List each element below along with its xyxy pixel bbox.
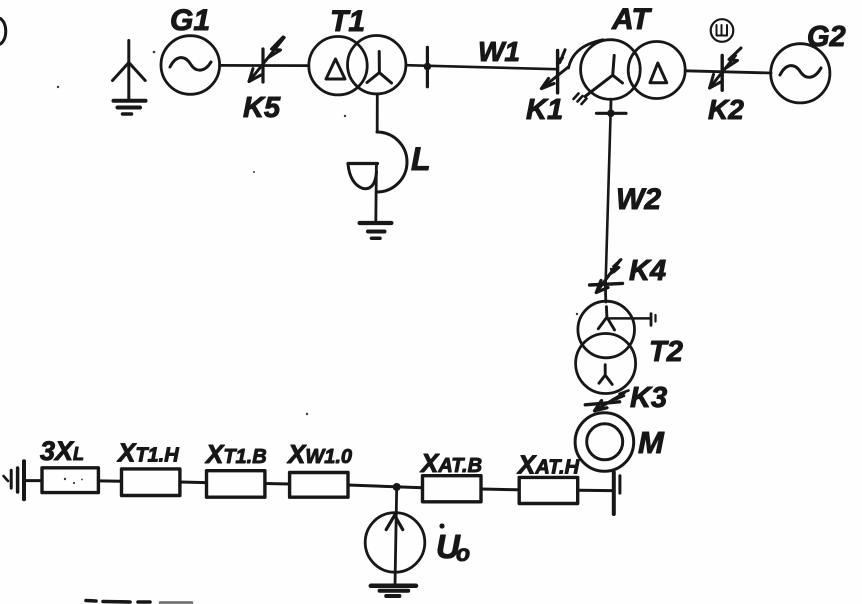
svg-text:W1: W1 bbox=[478, 36, 520, 67]
generator G2 bbox=[771, 21, 846, 103]
svg-text:K5: K5 bbox=[243, 92, 281, 124]
svg-text:G2: G2 bbox=[807, 21, 846, 53]
svg-text:K4: K4 bbox=[629, 255, 666, 287]
short-circuit K5 bbox=[243, 37, 284, 124]
resistor XAT.B bbox=[419, 448, 482, 502]
scan artifact: cut-off caption at bottom bbox=[86, 601, 192, 603]
generator G1 bbox=[161, 4, 220, 94]
svg-text:L: L bbox=[411, 141, 431, 177]
wire: junction down through source bbox=[395, 487, 397, 586]
wire: G1 to T1 bbox=[220, 64, 309, 67]
svg-text:XAT.B: XAT.B bbox=[419, 448, 482, 478]
resistor XAT.H bbox=[516, 450, 580, 504]
svg-text:o: o bbox=[456, 540, 470, 566]
svg-text:W2: W2 bbox=[616, 183, 661, 216]
wire with node to XAT.B bbox=[348, 483, 423, 491]
svg-text:XW1.0: XW1.0 bbox=[286, 439, 352, 469]
resistor XW1.0 bbox=[286, 439, 352, 497]
short-circuit K2 with circled mark bbox=[708, 19, 744, 125]
ground: below source bbox=[371, 586, 416, 596]
ground: left end of impedance chain bbox=[4, 461, 43, 499]
reactor L bbox=[348, 132, 431, 192]
short-circuit K3 bbox=[585, 382, 667, 414]
wire: AT to G2 bbox=[685, 71, 771, 73]
svg-text:K1: K1 bbox=[526, 94, 563, 126]
wire bbox=[98, 479, 121, 482]
scan artifact: partial circle at left page edge bbox=[1, 19, 6, 45]
scan speckles bbox=[57, 51, 578, 484]
svg-text:K2: K2 bbox=[708, 94, 744, 125]
source Uo bbox=[365, 513, 470, 573]
node below AT bbox=[597, 99, 627, 117]
svg-text:G1: G1 bbox=[170, 4, 210, 37]
motor M bbox=[575, 413, 665, 472]
svg-text:T1: T1 bbox=[330, 5, 365, 38]
wire W2 bbox=[606, 113, 662, 283]
wire: reactor to ground bbox=[374, 164, 377, 223]
svg-text:T2: T2 bbox=[649, 336, 683, 368]
resistor XT1.B bbox=[204, 439, 267, 497]
svg-text:K3: K3 bbox=[630, 382, 667, 414]
wire bbox=[180, 481, 207, 485]
ground: below reactor bbox=[360, 223, 392, 238]
svg-text:XT1.B: XT1.B bbox=[204, 439, 267, 469]
transformer T2 bbox=[576, 301, 683, 393]
wire bbox=[578, 489, 612, 492]
svg-text:XT1.H: XT1.H bbox=[116, 438, 179, 468]
short-circuit K1 bbox=[526, 50, 568, 126]
short-circuit K4 bbox=[590, 255, 666, 293]
ground: G1 neutral star with earth bbox=[113, 41, 146, 115]
bus tick and node after T1 bbox=[424, 47, 432, 86]
svg-text:AT: AT bbox=[611, 3, 652, 36]
wire: arc from K1 to AT top bbox=[569, 40, 604, 68]
autotransformer AT bbox=[574, 3, 686, 104]
svg-text:3XL: 3XL bbox=[40, 436, 84, 466]
transformer T1 bbox=[309, 5, 406, 95]
wire: T1 down to reactor bbox=[376, 94, 379, 132]
wire bbox=[265, 482, 290, 486]
svg-text:XAT.H: XAT.H bbox=[516, 450, 580, 480]
svg-text:M: M bbox=[638, 425, 665, 460]
wire W1 bbox=[406, 36, 556, 69]
ground: right end of impedance chain bbox=[614, 472, 620, 514]
resistor XT1.H bbox=[116, 438, 180, 496]
wire: K4 to T2 bbox=[604, 286, 607, 303]
resistor 3XL bbox=[40, 436, 98, 493]
wire bbox=[481, 488, 519, 492]
